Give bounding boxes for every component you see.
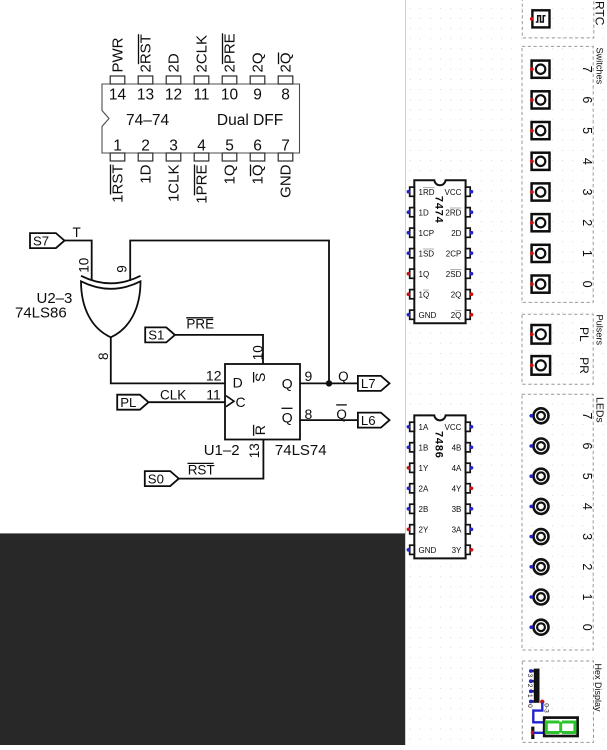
svg-text:VCC: VCC — [445, 188, 462, 197]
section label LEDs — [594, 397, 606, 423]
XOR pin number 8 — [96, 352, 111, 360]
IC 7474 pin 1RD (left 1) — [407, 187, 415, 196]
svg-text:74LS74: 74LS74 — [275, 442, 327, 459]
svg-text:2CLK: 2CLK — [194, 35, 211, 73]
LED 6 — [529, 439, 548, 454]
FF output label Qbar — [282, 408, 293, 425]
switch 0 button — [530, 276, 550, 293]
switch 7 button — [530, 61, 550, 78]
svg-text:Q: Q — [336, 407, 347, 422]
hex bus node label 0-3 — [542, 703, 549, 713]
pin label 2D (pin 12) — [166, 53, 183, 72]
LED label 4 — [580, 503, 594, 510]
seven segment display (rotated, showing 8) — [544, 718, 577, 736]
hex bus pin 3 — [529, 669, 534, 673]
svg-text:U1–2: U1–2 — [204, 442, 240, 459]
svg-text:9: 9 — [305, 368, 313, 384]
svg-text:8: 8 — [305, 406, 313, 422]
switch 1 button — [530, 245, 550, 262]
IC 7474 pin GND (left 7) — [407, 310, 415, 319]
package pin 11 pad — [194, 76, 209, 84]
wire hex bus to display data input — [533, 703, 547, 723]
breadboard dotted grid — [406, 0, 607, 745]
hex bus pin label 2 — [526, 684, 533, 688]
svg-text:2: 2 — [141, 138, 150, 155]
pin label GND (pin 7) — [278, 164, 295, 198]
package pin 7 pad — [278, 153, 293, 161]
svg-text:2RST: 2RST — [138, 34, 155, 72]
package pin 2 pad — [138, 153, 153, 161]
IC 7474 pin label 2Q — [451, 311, 462, 320]
IC 7486 pin 1Y (left 3) — [407, 463, 415, 472]
svg-text:1RST: 1RST — [110, 165, 127, 203]
LED label 0 — [580, 624, 594, 631]
svg-text:GND: GND — [419, 546, 437, 555]
hex bus pin 2 — [529, 679, 534, 683]
IC 7486 pin label 3Y — [452, 546, 462, 555]
IC 7486 name label — [433, 431, 445, 459]
svg-text:2A: 2A — [419, 484, 429, 493]
LED 0 — [529, 620, 548, 635]
svg-text:Q: Q — [282, 410, 293, 426]
IC 7474 pin label VCC — [445, 188, 462, 197]
svg-text:Q: Q — [338, 369, 349, 384]
package pin 13 pad — [138, 76, 153, 84]
hex bus pin label 3 — [526, 674, 533, 678]
hex bus pin 0 — [529, 700, 534, 704]
svg-text:1Q: 1Q — [250, 165, 267, 185]
IC 7486 pin label 2Y — [419, 525, 429, 534]
hex dp connector — [531, 727, 534, 739]
svg-text:2: 2 — [580, 219, 594, 226]
svg-text:CLK: CLK — [160, 387, 186, 402]
IC 7486 pin 2Y (left 6) — [407, 525, 415, 534]
IC 7486 pin label 2B — [419, 505, 429, 514]
IC 7486 pin label 1Y — [419, 464, 429, 473]
svg-text:8: 8 — [96, 352, 111, 360]
svg-text:1: 1 — [580, 250, 594, 257]
wire net RST: S0 to FF R pin 13 — [179, 438, 264, 479]
svg-text:2D: 2D — [166, 53, 183, 72]
section label Pulsers — [595, 315, 605, 346]
svg-text:GND: GND — [278, 164, 295, 198]
section label Hex Display — [593, 664, 603, 713]
svg-text:11: 11 — [206, 386, 221, 402]
svg-text:74–74: 74–74 — [126, 112, 169, 129]
IC 7486 pin 1A (left 1) — [407, 422, 415, 431]
svg-text:S1: S1 — [148, 328, 164, 343]
svg-text:2CP: 2CP — [446, 249, 462, 258]
XOR gate U2-3 (74LS86) pointing down — [81, 276, 141, 338]
svg-text:1RD: 1RD — [419, 188, 435, 197]
wire FF Qbar output pin 8 to L6 — [299, 419, 358, 421]
svg-text:T: T — [73, 225, 81, 240]
svg-text:1PRE: 1PRE — [194, 165, 211, 204]
svg-text:1Y: 1Y — [419, 464, 429, 473]
svg-text:3: 3 — [169, 138, 178, 155]
svg-text:2: 2 — [526, 684, 533, 688]
package pin 12 pad — [166, 76, 181, 84]
switch label 5 — [580, 127, 594, 134]
LED label 7 — [580, 412, 594, 419]
svg-text:C: C — [236, 394, 246, 410]
svg-text:7: 7 — [580, 412, 594, 419]
svg-text:13: 13 — [137, 87, 154, 104]
LED 3 — [529, 529, 548, 544]
IC 7474 pin label 1D — [419, 208, 429, 217]
pin label 2CLK (pin 11) — [194, 35, 211, 73]
RTC clock button — [530, 10, 550, 27]
IC 7474 pin 1Q (left 5) — [407, 269, 415, 278]
svg-text:9: 9 — [115, 265, 130, 273]
wire net Q feedback: XOR input 9 up, across, down to Q junction — [130, 241, 329, 384]
IC package pinout 74-74 Dual DFF body — [102, 84, 300, 153]
svg-text:8: 8 — [281, 87, 290, 104]
IC 7474 pin label 1SD — [419, 249, 435, 258]
IC 7486 pin label 1B — [419, 443, 429, 452]
svg-text:1D: 1D — [138, 164, 155, 183]
switch 4 button — [530, 153, 550, 170]
net label PRE (active low) — [186, 317, 214, 332]
svg-text:1A: 1A — [419, 423, 429, 432]
IC 7474 pin label 1Q — [419, 290, 430, 299]
svg-text:14: 14 — [109, 87, 127, 104]
IC 7486 pin label GND — [419, 546, 437, 555]
svg-text:2PRE: 2PRE — [222, 33, 239, 72]
IC 7474 pin label 2SD — [446, 270, 462, 279]
svg-text:Hex Display: Hex Display — [593, 664, 603, 713]
wire net T: S7 to XOR input 10 — [65, 241, 92, 282]
input flag S0 — [145, 471, 179, 486]
svg-text:S: S — [252, 373, 268, 382]
switch label 0 — [580, 281, 594, 288]
svg-text:7: 7 — [281, 138, 290, 155]
IC 7486 pin label 3B — [452, 505, 462, 514]
svg-text:1Q: 1Q — [222, 165, 239, 185]
svg-text:10: 10 — [76, 258, 91, 273]
IC 7486 pin label 2A — [419, 484, 429, 493]
svg-text:5: 5 — [580, 473, 594, 480]
LED label 2 — [580, 563, 594, 570]
LED 2 — [529, 559, 548, 574]
section label RTC — [592, 1, 606, 26]
output flag L6 — [358, 413, 390, 428]
XOR pin number 10 — [76, 258, 91, 273]
svg-text:13: 13 — [247, 443, 262, 458]
svg-text:L6: L6 — [361, 413, 376, 428]
IC 7486 pin label VCC — [445, 423, 462, 432]
IC 7474 pin 2Q (right 7) — [466, 310, 474, 319]
package pin 9 pad — [250, 76, 265, 84]
svg-text:2Y: 2Y — [419, 525, 429, 534]
breadboard panel separator — [405, 0, 407, 745]
IC 7486 body — [414, 415, 465, 558]
switch label 4 — [580, 158, 594, 165]
svg-text:3A: 3A — [452, 525, 462, 534]
svg-text:2Q: 2Q — [451, 290, 462, 299]
svg-text:R: R — [252, 425, 268, 435]
IC 7474 pin VCC (right 1) — [466, 187, 474, 196]
svg-text:L7: L7 — [361, 376, 376, 391]
svg-text:10: 10 — [221, 87, 239, 104]
svg-text:RST: RST — [188, 462, 215, 477]
IC 7474 pin 2SD (right 5) — [466, 269, 474, 278]
IC 7486 pin label 4B — [452, 443, 462, 452]
svg-text:RTC: RTC — [592, 1, 606, 26]
svg-text:4: 4 — [580, 503, 594, 510]
section label Switches — [595, 48, 605, 85]
IC 7474 body — [414, 180, 465, 323]
Switches section box — [522, 46, 593, 302]
svg-text:7474: 7474 — [433, 196, 445, 224]
IC 7486 pin 3A (right 6) — [466, 525, 474, 534]
pin label 1Q (pin 5) — [222, 165, 239, 185]
IC 7486 pin 2B (left 5) — [407, 504, 415, 513]
svg-text:6: 6 — [580, 443, 594, 450]
IC 7486 pin 3Y (right 7) — [466, 545, 474, 554]
svg-text:7486: 7486 — [433, 431, 445, 459]
pin label 1RST (pin 1) — [110, 165, 127, 203]
svg-text:9: 9 — [253, 87, 262, 104]
IC 7486 pin GND (left 7) — [407, 545, 415, 554]
svg-text:0: 0 — [526, 704, 533, 708]
svg-text:2SD: 2SD — [446, 270, 462, 279]
LED 1 — [529, 590, 548, 605]
svg-text:Q: Q — [282, 376, 293, 392]
svg-text:D: D — [233, 375, 243, 391]
package pin 5 pad — [222, 153, 237, 161]
svg-text:1CLK: 1CLK — [166, 165, 183, 203]
input flag S1 — [145, 327, 175, 342]
IC 7474 pin 1D (left 2) — [407, 208, 415, 217]
svg-text:VCC: VCC — [445, 423, 462, 432]
switch label 2 — [580, 219, 594, 226]
svg-text:4: 4 — [197, 138, 206, 155]
svg-text:2RD: 2RD — [445, 208, 461, 217]
pin label PWR (pin 14) — [110, 37, 127, 72]
switch label 6 — [580, 96, 594, 103]
IC 7474 pin label 1CP — [419, 229, 435, 238]
wire dp node to display — [533, 732, 545, 734]
XOR pin number 9 — [115, 265, 130, 273]
switch 3 button — [530, 183, 550, 200]
IC 7474 pin label 1RD — [419, 188, 435, 197]
IC 7474 pin label 2RD — [445, 208, 461, 217]
LED 4 — [529, 499, 548, 514]
IC 7486 pin 1B (left 2) — [407, 443, 415, 452]
package pin 8 pad — [278, 76, 293, 84]
svg-text:3: 3 — [526, 674, 533, 678]
IC 7486 pin label 3A — [452, 525, 462, 534]
svg-text:11: 11 — [193, 87, 209, 104]
svg-text:PWR: PWR — [110, 37, 127, 72]
svg-text:3Y: 3Y — [452, 546, 462, 555]
Pulsers section box — [522, 314, 593, 384]
hex dp node — [531, 731, 535, 735]
switch label 7 — [580, 66, 594, 73]
IC 7474 pin 1Q (left 6) — [407, 290, 415, 299]
svg-text:5: 5 — [225, 138, 234, 155]
svg-text:3: 3 — [580, 533, 594, 540]
svg-text:1: 1 — [580, 594, 594, 601]
package pin 3 pad — [166, 153, 181, 161]
svg-text:74LS86: 74LS86 — [15, 305, 67, 322]
FF pin number 10 — [250, 345, 265, 360]
hex bus pin label 0 — [526, 704, 533, 708]
svg-text:LEDs: LEDs — [594, 397, 606, 423]
svg-text:2D: 2D — [451, 229, 461, 238]
input flag S7 — [30, 233, 65, 248]
LED 7 — [529, 408, 548, 423]
svg-text:1Q: 1Q — [419, 290, 430, 299]
svg-text:5: 5 — [580, 127, 594, 134]
switch label 3 — [580, 189, 594, 196]
IC 7486 pin VCC (right 1) — [466, 422, 474, 431]
pin label 2PRE (pin 10) — [222, 33, 239, 72]
pin label 2Q (pin 9) — [250, 52, 267, 72]
switch label 1 — [580, 250, 594, 257]
video placeholder dark panel — [0, 533, 405, 745]
IC 7474 pin label GND — [419, 311, 437, 320]
IC 7486 pin 4B (right 2) — [466, 443, 474, 452]
IC 7486 pin label 4A — [452, 464, 462, 473]
IC 7474 pin 1CP (left 3) — [407, 228, 415, 237]
IC 7474 pin 2CP (right 4) — [466, 249, 474, 258]
pin label 2RST (pin 13) — [138, 34, 155, 72]
pulser label PR — [577, 357, 591, 374]
pin label 1PRE (pin 4) — [194, 165, 211, 204]
svg-text:1Q: 1Q — [419, 270, 430, 279]
LED label 3 — [580, 533, 594, 540]
wire net CLK: PL to FF C pin 11 — [149, 401, 227, 403]
wire FF Q output pin 9 to L7 — [299, 382, 358, 384]
Hex Display section box — [522, 661, 593, 742]
svg-text:2: 2 — [580, 563, 594, 570]
svg-text:4B: 4B — [452, 443, 462, 452]
svg-text:2Q: 2Q — [451, 311, 462, 320]
svg-text:7: 7 — [580, 66, 594, 73]
LED label 5 — [580, 473, 594, 480]
IC 7474 pin 1SD (left 4) — [407, 249, 415, 258]
LED 5 — [529, 469, 548, 484]
svg-text:2Q: 2Q — [250, 52, 267, 72]
svg-text:S7: S7 — [33, 233, 49, 248]
svg-text:6: 6 — [253, 138, 262, 155]
D flip-flop U1-2 (74LS74) body — [225, 364, 300, 440]
FF set input label S (active low) — [252, 372, 268, 383]
clock input triangle on pin 11 — [226, 396, 234, 407]
IC 7486 pin 4A (right 3) — [466, 463, 474, 472]
svg-text:3B: 3B — [452, 505, 462, 514]
RTC section box — [522, 0, 594, 38]
pin label 1CLK (pin 3) — [166, 165, 183, 203]
output flag L7 — [358, 376, 390, 391]
svg-text:1: 1 — [113, 138, 122, 155]
LED label 6 — [580, 443, 594, 450]
svg-text:Switches: Switches — [595, 48, 605, 85]
package pin 6 pad — [250, 153, 265, 161]
junction dot on net Q — [326, 380, 332, 386]
IC 7486 pin label 1A — [419, 423, 429, 432]
svg-text:12: 12 — [206, 367, 222, 383]
svg-text:PL: PL — [120, 395, 136, 410]
svg-text:GND: GND — [419, 311, 437, 320]
hex bus output node 0-3 — [540, 700, 544, 704]
svg-text:4Y: 4Y — [452, 484, 462, 493]
IC 7486 pin 2A (left 4) — [407, 484, 415, 493]
IC 7474 pin 2Q (right 6) — [466, 290, 474, 299]
wire net PRE: S1 to FF S pin 10 — [175, 335, 263, 365]
svg-text:1B: 1B — [419, 443, 429, 452]
net label RST (active low) — [188, 462, 215, 477]
svg-text:1SD: 1SD — [419, 249, 435, 258]
hex input bus connector (pins 3-0) — [534, 669, 540, 703]
switch 5 button — [530, 122, 550, 139]
IC 7474 name label — [433, 196, 445, 224]
pulser label PL — [577, 327, 591, 342]
svg-text:Pulsers: Pulsers — [595, 315, 605, 346]
IC 7474 pin 2D (right 3) — [466, 228, 474, 237]
FF pin number 13 — [247, 443, 262, 458]
svg-text:S0: S0 — [148, 471, 164, 486]
pin label 1Q (pin 6) — [250, 165, 267, 185]
IC 7486 pin 3B (right 5) — [466, 504, 474, 513]
svg-text:Dual DFF: Dual DFF — [217, 112, 283, 129]
package pin 14 pad — [110, 76, 125, 84]
svg-text:10: 10 — [250, 345, 265, 360]
svg-text:PL: PL — [577, 327, 591, 342]
pulser PL button — [530, 325, 550, 344]
IC 7474 pin label 2D — [451, 229, 461, 238]
hex bus pin 1 — [529, 689, 534, 693]
svg-text:4A: 4A — [452, 464, 462, 473]
hex bus pin label 1 — [526, 694, 533, 698]
package pin 10 pad — [222, 76, 237, 84]
svg-text:PRE: PRE — [186, 317, 214, 332]
svg-text:4: 4 — [580, 158, 594, 165]
IC 7474 pin label 1Q — [419, 270, 430, 279]
input flag PL — [117, 395, 148, 410]
pulser PR button — [530, 356, 550, 375]
svg-text:1CP: 1CP — [419, 229, 435, 238]
pin label 1D (pin 2) — [138, 164, 155, 183]
FF reset input label R (active low) — [252, 425, 268, 436]
IC 7486 pin 4Y (right 4) — [466, 484, 474, 493]
svg-text:1: 1 — [526, 694, 533, 698]
svg-text:1D: 1D — [419, 208, 429, 217]
svg-text:12: 12 — [165, 87, 182, 104]
IC 7474 pin 2RD (right 2) — [466, 208, 474, 217]
LED label 1 — [580, 594, 594, 601]
package pin 4 pad — [194, 153, 209, 161]
LEDs section box — [522, 394, 593, 650]
net label Qbar — [336, 405, 347, 422]
svg-text:PR: PR — [577, 357, 591, 374]
pin label 2Q (pin 8) — [278, 52, 295, 72]
svg-text:0: 0 — [580, 281, 594, 288]
svg-text:3: 3 — [580, 189, 594, 196]
IC 7474 pin label 2Q — [451, 290, 462, 299]
switch 2 button — [530, 214, 550, 231]
IC 7486 pin label 4Y — [452, 484, 462, 493]
svg-text:0: 0 — [580, 624, 594, 631]
svg-text:6: 6 — [580, 96, 594, 103]
switch 6 button — [530, 91, 550, 108]
svg-text:2Q: 2Q — [278, 52, 295, 72]
IC 7474 pin label 2CP — [446, 249, 462, 258]
wire XOR output pin 8 to FF D input pin 12 — [111, 335, 226, 383]
package pin 1 pad — [110, 153, 125, 161]
